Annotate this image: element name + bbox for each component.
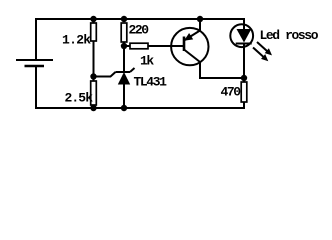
junction node emitter/top rail [197, 16, 203, 22]
wire 1.2k top lead [93, 19, 95, 23]
svg-text:Led rosso: Led rosso [260, 28, 319, 43]
wire battery positive lead [35, 18, 37, 59]
svg-text:1k: 1k [140, 54, 154, 69]
LED D1 circle [230, 24, 253, 47]
transistor Q1 emitter segment [184, 31, 200, 41]
battery B1 positive plate [16, 59, 53, 61]
shunt regulator U1 TL431 cathode bar right bend [130, 68, 135, 72]
junction node divider R1/R2/ref [90, 73, 96, 79]
svg-text:470: 470 [221, 85, 242, 100]
junction node collector / LED / 470 [241, 75, 247, 81]
junction node R3 top [121, 16, 127, 22]
transistor Q1 base bar [183, 37, 186, 52]
wire LED cathode lead [243, 44, 245, 78]
wire TL431 cathode lead [123, 46, 125, 71]
wire 220 bottom lead [123, 42, 125, 46]
resistor R1 1.2k body [91, 23, 97, 41]
wire 470 bottom lead [243, 102, 245, 109]
resistor R5 470 body [241, 82, 247, 102]
wire divider node to TL431 ref [94, 72, 116, 77]
LED D1 emission arrow upper head [265, 48, 272, 55]
wire bottom rail [35, 107, 245, 109]
junction node R3 bottom / 1k / TL431 cathode [121, 43, 127, 49]
transistor Q1 emitter arrow (PNP) [184, 33, 193, 41]
shunt regulator U1 TL431 cathode bar [116, 71, 131, 73]
wire LED anode lead [243, 19, 245, 30]
svg-text:TL431: TL431 [134, 75, 168, 90]
wire 2.5k bottom lead [93, 105, 95, 109]
shunt regulator U1 TL431 triangle [118, 72, 130, 85]
wire 1.2k bottom lead to divider node [93, 41, 95, 81]
LED D1 emission arrow lower shaft [253, 48, 263, 57]
svg-text:1.2k: 1.2k [62, 33, 91, 48]
wire top rail [35, 18, 245, 20]
junction node R1 top [90, 16, 96, 22]
svg-text:220: 220 [129, 23, 150, 38]
wire battery negative lead [35, 67, 37, 109]
LED D1 cathode bar [236, 43, 252, 45]
svg-text:2.5k: 2.5k [65, 91, 94, 106]
LED D1 triangle [237, 29, 252, 43]
resistor R3 220 body [121, 23, 127, 42]
battery B1 negative plate [25, 65, 45, 68]
LED D1 emission arrow lower head [261, 54, 268, 61]
junction node TL431 anode rail [121, 105, 127, 111]
transistor Q1 circle [171, 28, 208, 65]
wire 470 top lead [243, 78, 245, 82]
junction node R2 bottom rail [90, 105, 96, 111]
resistor R2 2.5k body [91, 81, 97, 105]
transistor Q1 collector segment [184, 50, 200, 63]
resistor R4 1k body [130, 43, 148, 49]
LED D1 emission arrow upper shaft [257, 42, 267, 51]
wire 1k right lead to base [148, 45, 184, 47]
wire collector down and right to LED node [200, 62, 245, 78]
wire 1k left lead [124, 45, 130, 47]
wire emitter to top rail [199, 19, 201, 31]
wire TL431 anode lead [123, 84, 125, 109]
